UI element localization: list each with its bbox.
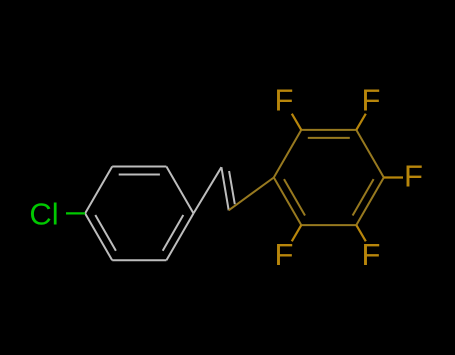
bond C-F (BL position) bbox=[292, 225, 302, 241]
svg-text:Cl: Cl bbox=[29, 197, 58, 232]
bond C-F (R position) bbox=[384, 176, 403, 178]
pentafluorophenyl ring bbox=[274, 130, 384, 225]
svg-text:F: F bbox=[275, 237, 294, 272]
bond C-F (TL position) bbox=[292, 114, 302, 130]
svg-text:F: F bbox=[275, 83, 294, 118]
benzene ring of 4-chlorophenyl group bbox=[85, 167, 193, 261]
svg-text:F: F bbox=[362, 83, 381, 118]
bond C-F (TR position) bbox=[356, 114, 366, 130]
bridge bond ring1-CH bbox=[194, 167, 222, 213]
svg-text:F: F bbox=[404, 159, 423, 194]
bond C-F (BR position) bbox=[356, 225, 366, 241]
bond C-Cl bbox=[66, 212, 85, 214]
svg-text:F: F bbox=[362, 237, 381, 272]
bridge bond CH to pentafluorophenyl ring bbox=[229, 178, 274, 211]
C=C double bond (vinylene) bbox=[221, 167, 234, 210]
